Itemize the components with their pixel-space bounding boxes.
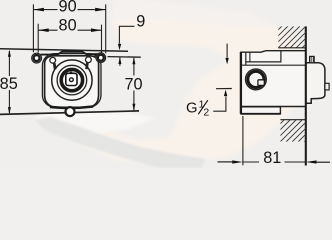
dim 90 arrows [33,8,44,12]
port ring [248,71,264,87]
recess slot [246,51,281,62]
cartridge square [66,73,77,85]
wall line [305,26,307,165]
side body fill [241,51,306,114]
mid line [241,64,306,66]
side body bottom edges [241,107,281,114]
dim 9 arrow up [119,57,121,65]
cartridge top tab [70,72,73,74]
second circle [57,65,87,95]
center dot [70,78,74,82]
dim 90 ext lines [33,4,105,53]
plug behind wall [306,63,325,104]
body bottom thick edge [50,107,93,108]
port bottom tick [216,88,232,90]
plate edge line [245,52,247,65]
svg-text:70: 70 [124,75,142,93]
dim 90 line [33,9,105,11]
port circle [246,69,267,90]
side elbow arrow [226,44,228,58]
dim 81 ext line left [242,116,244,165]
svg-text:85: 85 [0,75,18,93]
svg-text:90: 90 [59,0,77,15]
bottom tab [66,107,75,116]
keyhole slot left [50,57,56,63]
watermark cream swoosh [48,0,305,162]
keyhole slot right [86,57,92,63]
outer circle [52,60,92,100]
bridge bump band [62,50,82,53]
dim 70 arrows [132,57,135,64]
thick ring [61,69,82,90]
wall hatch bottom [262,120,326,142]
ear socket right [96,53,106,63]
reference line B [108,56,141,59]
svg-text:81: 81 [263,149,281,167]
dim 80 ext lines [38,24,101,54]
ear socket left [32,53,42,63]
dim 85 line [8,51,10,113]
ear screw left [34,55,40,61]
svg-text:G: G [186,101,198,117]
wall hatch top border [278,47,306,49]
side body left edge thick [240,52,242,114]
dim 9 arrow down [118,44,121,50]
top knob [310,56,315,62]
svg-text:9: 9 [136,12,145,30]
valve body front [45,56,99,108]
port notch [258,80,264,86]
dim 9 leader [119,26,134,43]
wire wall line [0,49,128,51]
mounting plate [42,54,101,107]
dim 81 arrows [218,161,233,163]
G1/2 leader [213,97,226,112]
dim 70 line [133,58,135,110]
slot divider [249,52,251,62]
dim 80 arrows [38,28,49,32]
right knob [325,83,329,90]
background base [0,0,332,168]
bridge plate top [41,51,101,54]
ear screw right [98,55,104,61]
dim 80 line [38,29,101,31]
wall hatch top [260,26,324,48]
dim 85 arrows [8,50,11,57]
dim 81 line [243,161,306,163]
svg-text:80: 80 [59,17,77,35]
svg-text:2: 2 [203,107,209,119]
wire bottom line [0,111,139,115]
wall hatch bottom border [280,119,305,121]
